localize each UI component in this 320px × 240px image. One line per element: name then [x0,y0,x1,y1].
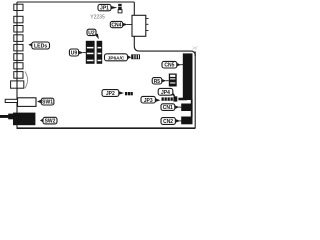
svg-text:R5: R5 [154,79,161,85]
svg-text:JP1: JP1 [100,6,109,12]
jumper pads JP2 [125,92,133,95]
label CN5 [162,61,183,68]
svg-text:SW1: SW1 [42,99,53,105]
LED square 4 [14,35,23,42]
label SW1 [37,98,54,105]
header R5 [169,74,177,87]
connector block CN1 [181,104,192,112]
board outline [17,2,196,129]
right step down into CN4 [133,2,135,15]
left edge [16,2,18,128]
bracket bar foot [178,98,187,101]
switch SW2 lever [0,115,9,118]
socket bar 2 [97,41,103,64]
LED square 2 [14,16,23,23]
jumper pads JP3 [162,96,178,101]
switch SW1 lever [5,99,18,102]
socket bar 1 [86,41,95,64]
bracket arc [25,72,28,89]
bottom edge [17,127,196,129]
label JP6A/C [105,54,132,62]
label JP4 [158,88,175,97]
bracket spine [191,99,193,117]
switch SW2 body [13,113,35,126]
label JP1 [98,4,117,11]
LED square 8 [14,72,23,79]
label U2 [87,29,99,39]
LED square 3 [14,26,23,33]
label JP3 [141,96,160,104]
connector block CN2 [181,117,192,125]
LED double square 9 [11,81,24,88]
label JP2 [102,90,124,97]
svg-text:U2: U2 [88,30,95,36]
LED square 6 [14,54,23,61]
right edge [194,52,196,129]
svg-text:CN2: CN2 [163,119,173,125]
svg-text:JP2: JP2 [106,91,115,97]
jumper chunk JP3 [173,96,177,101]
svg-text:LEDs: LEDs [34,43,47,49]
svg-text:CN1: CN1 [163,105,173,111]
jumper JP1 [118,4,122,13]
header JP6A/C [131,54,140,59]
LED square 5 [14,44,23,51]
svg-text:U9: U9 [71,51,78,57]
label CN2 [161,118,182,125]
label CN1 [161,104,182,111]
label R5 [152,78,169,85]
LED square 1 [14,4,23,10]
svg-text:SW2: SW2 [45,119,56,125]
LED square 7 [14,63,23,69]
switch SW2 lever collar [8,114,13,120]
connector CN4 body [132,15,146,36]
label LEDs [28,42,49,49]
svg-text:CN5: CN5 [164,63,174,69]
switch SW1 body [18,98,37,107]
pin ticks of CN4 [146,19,149,31]
label U9 [69,49,86,57]
svg-text:JP6A/C: JP6A/C [108,55,125,61]
label SW2 [40,117,57,124]
faint corner mark [192,46,197,49]
wire from CN4 to right edge [134,36,195,56]
svg-text:JP3: JP3 [144,98,153,104]
top edge [17,1,134,3]
label CN4 [110,21,132,28]
bracket bar [183,53,193,100]
svg-text:Y2235: Y2235 [90,15,105,21]
svg-text:CN4: CN4 [111,23,121,29]
svg-text:JP4: JP4 [161,90,170,96]
